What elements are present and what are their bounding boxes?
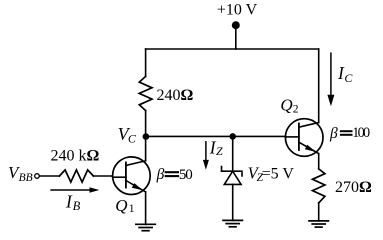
wire left branch upper <box>145 49 147 76</box>
transistor Q1 base bar <box>125 163 127 188</box>
current arrow IC <box>327 53 334 106</box>
svg-text:1: 1 <box>129 203 135 215</box>
terminal VBB open circle <box>35 174 40 179</box>
transistor Q2 collector line <box>299 123 319 128</box>
wire zener top <box>232 136 234 171</box>
current arrow IZ <box>203 142 209 170</box>
svg-text:B: B <box>73 199 81 213</box>
transistor Q1 circle <box>113 157 151 195</box>
svg-text:240Ω: 240Ω <box>157 87 194 104</box>
wire right branch upper <box>318 49 320 123</box>
svg-text:C: C <box>344 71 353 85</box>
svg-text:+10 V: +10 V <box>217 2 258 19</box>
resistor 240k <box>59 170 93 182</box>
transistor Q1 base lead <box>113 176 126 178</box>
wire zener bottom <box>232 184 234 220</box>
wire supply drop <box>235 25 237 49</box>
transistor Q1 emitter line with arrow <box>126 181 146 192</box>
ground Q1 <box>136 224 155 230</box>
wire 270 to ground <box>318 203 320 221</box>
resistor 240ohm <box>139 76 152 110</box>
wire resistor to Q1 base <box>93 175 112 177</box>
resistor 270ohm <box>313 169 325 203</box>
current arrow IB <box>51 187 99 193</box>
transistor Q2 base lead <box>286 136 299 138</box>
svg-text:=5 V: =5 V <box>262 165 295 182</box>
wire Q1 emitter down <box>145 192 147 224</box>
wire Q2 emitter down <box>318 154 320 169</box>
svg-text:2: 2 <box>293 103 299 115</box>
svg-text:C: C <box>128 132 137 146</box>
transistor Q1 collector line <box>126 161 146 166</box>
zener cathode bar <box>222 167 243 176</box>
svg-text:β: β <box>329 125 338 142</box>
wire left branch lower <box>145 111 147 137</box>
node supply dot <box>232 21 240 29</box>
node zener junction dot <box>229 133 236 140</box>
transistor Q2 emitter line with arrow <box>299 142 319 153</box>
wire VC to Q1 collector <box>145 136 147 160</box>
svg-text:100: 100 <box>352 125 370 141</box>
svg-text:Z: Z <box>216 144 223 158</box>
wire mid rail to Q2 base <box>146 135 286 137</box>
svg-text:β: β <box>156 166 165 183</box>
wire VBB to resistor <box>39 175 59 177</box>
transistor Q2 circle <box>285 119 323 157</box>
svg-text:270Ω: 270Ω <box>335 179 372 196</box>
svg-text:Q: Q <box>115 196 127 215</box>
svg-text:BB: BB <box>19 172 33 184</box>
ground zener <box>223 220 242 226</box>
ground emitter <box>309 221 328 227</box>
wire top rail <box>146 48 319 50</box>
zener triangle <box>224 171 241 184</box>
svg-text:50: 50 <box>179 167 193 183</box>
svg-text:240 kΩ: 240 kΩ <box>51 148 100 165</box>
transistor Q2 base bar <box>298 124 300 151</box>
svg-text:Q: Q <box>280 96 292 115</box>
node VC dot <box>143 133 150 140</box>
